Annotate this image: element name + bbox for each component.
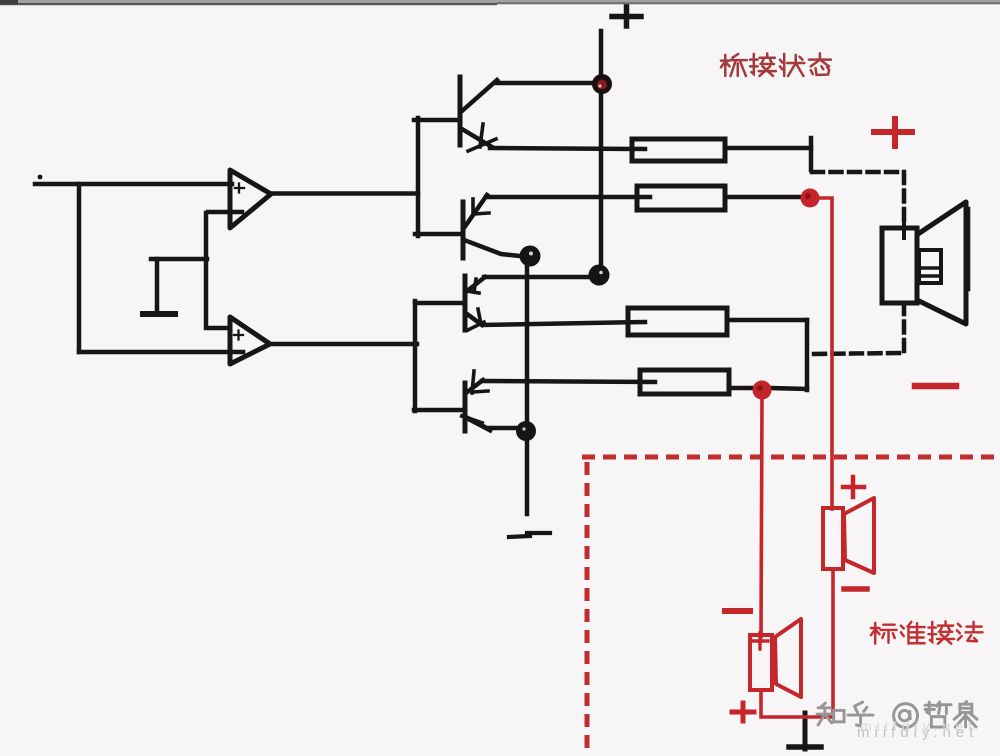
svg-text:miifdiy.net: miifdiy.net [860, 718, 977, 734]
